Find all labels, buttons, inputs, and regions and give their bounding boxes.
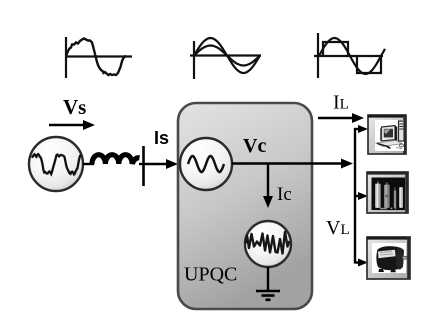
svg-text:IL: IL (333, 92, 349, 114)
waveform plot 1: distorted source voltage (65, 37, 132, 78)
load distribution bus (354, 128, 356, 264)
monitor (382, 126, 396, 141)
shaft (403, 256, 408, 259)
svg-text:VL: VL (326, 217, 350, 239)
svg-text:UPQC: UPQC (184, 264, 237, 286)
source VS circle (29, 137, 83, 191)
svg-text:Vs: Vs (63, 95, 86, 119)
waveform plot 3: square wave with sine (314, 33, 385, 78)
motor body (376, 246, 404, 270)
lamp 4 (399, 187, 403, 208)
desk / base (376, 141, 402, 147)
series source VC circle (180, 138, 232, 190)
svg-text:Is: Is (154, 128, 169, 148)
feet (379, 269, 385, 272)
branch arrow to lamp load (355, 192, 368, 200)
UPQC box (178, 103, 312, 309)
tower (399, 121, 405, 141)
branch arrow to computer load (354, 125, 368, 133)
inductor (line reactor) (92, 155, 140, 164)
load 3: motor icon (367, 237, 410, 279)
mouse (399, 144, 403, 147)
svg-text:Vc: Vc (243, 135, 266, 157)
keyboard stylus (377, 143, 392, 149)
ground wire stem (267, 267, 269, 291)
branch wire down to compensator with arrow Ic (263, 164, 273, 209)
bus bar node (142, 146, 145, 186)
waveform plot 2: two clean sines (190, 38, 261, 79)
wire arrow Is into UPQC (144, 159, 179, 169)
load 2: lamp bank icon (367, 172, 408, 213)
load 1: computer icon (368, 115, 406, 154)
lamp 3 (394, 191, 396, 209)
wire from source to inductor (83, 163, 94, 165)
label band (378, 250, 396, 259)
shelf dots (380, 208, 387, 210)
ground symbol (256, 291, 280, 300)
svg-text:Ic: Ic (277, 184, 292, 205)
shunt compensator circle (245, 221, 291, 267)
wire from inductor to bus (139, 163, 144, 165)
branch arrow to motor load (355, 259, 368, 267)
arrow IL (318, 113, 364, 123)
lamp 2 (384, 185, 390, 209)
lamp 1 (375, 184, 381, 209)
arrow for Vs (49, 120, 95, 130)
wire from Vc to load bus (232, 159, 353, 169)
